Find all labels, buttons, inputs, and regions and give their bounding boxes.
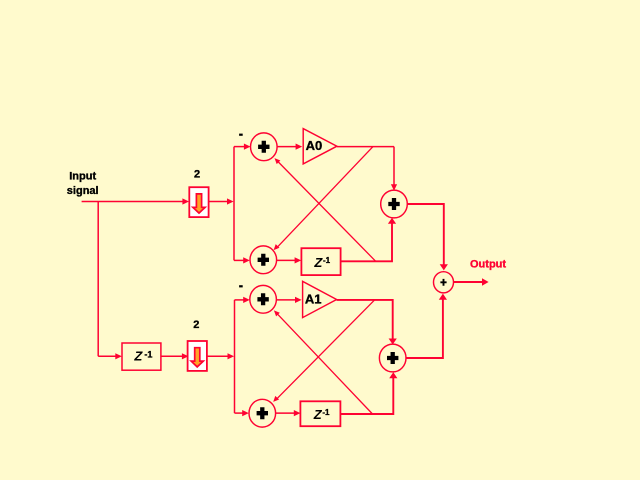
wire: S2 to delay Z1 [277, 257, 301, 263]
label: 2 (decimation factor, top) [194, 169, 200, 181]
delay Z1 (z^-1, section 1) [301, 248, 340, 275]
wire: S4 to amplifier A1 [277, 297, 302, 303]
svg-text:2: 2 [194, 169, 200, 181]
adder S6 (right, section 2) [379, 344, 406, 372]
label: 2 (decimation factor, bottom) [193, 319, 199, 331]
svg-text:Input: Input [69, 171, 96, 183]
svg-text:-1: -1 [322, 408, 330, 417]
wire: input branch vertical down to section 2 [97, 202, 99, 357]
wire: S5 to delay Z2 [276, 410, 301, 416]
adder S4 (top-left, section 2) [250, 285, 277, 313]
wire: into adder S4 [235, 297, 250, 303]
adder S1 (top-left, section 1) [250, 133, 277, 161]
label: Input signal [67, 171, 99, 197]
wire: into adder S2 [234, 257, 250, 263]
wire: Z2 output to adder S6 [340, 372, 397, 414]
output adder S7 [434, 272, 454, 293]
wire: into adder S5 [235, 410, 249, 416]
wire: into delay Z3 [98, 353, 122, 359]
svg-text:-1: -1 [143, 350, 153, 360]
downsampler D1 (keep 1 of 2) [189, 187, 208, 217]
wire: S1 to amplifier A0 [277, 144, 302, 150]
adder S2 (bottom-left, section 1) [250, 246, 277, 274]
svg-text:2: 2 [193, 319, 199, 331]
svg-text:Output: Output [470, 258, 506, 270]
wire: Z3 to downsampler D2 [161, 353, 189, 359]
adder S5 (bottom-left, section 2) [249, 399, 276, 427]
wire: Z1 output to adder S3 [341, 218, 397, 262]
label: minus sign at S1 [239, 134, 243, 136]
wire: cross diagonal A0-branch to adder S2 [274, 147, 373, 251]
svg-text:-1: -1 [323, 256, 331, 265]
op-amp A1 (allpass gain) [303, 281, 337, 317]
delay Z3 (z^-1, section 2 input) [122, 343, 161, 370]
svg-text:Z: Z [313, 407, 323, 422]
delay Z2 (z^-1, section 2) [300, 401, 340, 426]
label: minus sign at S4 [239, 285, 243, 287]
wire: S6 output up to output adder [406, 294, 447, 358]
wire: cross diagonal Z1-branch to adder S1 [275, 158, 376, 261]
wire: splitter vertical (section 1) [233, 147, 235, 261]
wire: input horizontal into downsampler D1 [82, 198, 189, 204]
wire: cross diagonal Z2-branch to adder S4 [274, 310, 373, 414]
svg-text:Z: Z [313, 255, 323, 270]
wire: D1 output to splitter node [209, 198, 234, 204]
svg-text:A0: A0 [306, 138, 323, 153]
wire: A1 output to adder S6 [337, 300, 397, 345]
svg-text:A1: A1 [305, 291, 322, 306]
op-amp A0 (allpass gain) [303, 129, 337, 164]
wire: A0 output to adder S3 [337, 147, 397, 191]
wire: cross diagonal A1-branch to adder S5 [273, 300, 374, 402]
wire: into adder S1 [234, 144, 251, 150]
wire: splitter vertical (section 2) [234, 300, 236, 413]
svg-text:signal: signal [67, 185, 99, 197]
wire: S3 output down to output adder [407, 204, 448, 270]
wire: D2 output to splitter node (section 2) [207, 353, 234, 359]
wire: output arrow [454, 278, 489, 286]
label: Output [470, 258, 506, 270]
adder S3 (right, section 1) [381, 190, 408, 218]
downsampler D2 (keep 1 of 2) [188, 341, 207, 371]
